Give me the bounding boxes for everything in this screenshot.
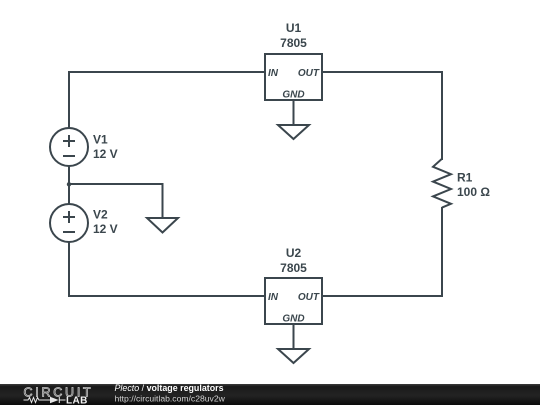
voltage source V2	[50, 204, 88, 242]
label V2 12 V	[93, 208, 118, 237]
voltage source V1	[50, 128, 88, 166]
svg-text:12 V: 12 V	[93, 147, 118, 161]
svg-text:OUT: OUT	[298, 68, 320, 79]
svg-text:GND: GND	[282, 314, 304, 325]
label V1 12 V	[93, 133, 118, 162]
svg-text:IN: IN	[268, 292, 279, 303]
logo diode	[50, 397, 59, 403]
wire V1 top to U1 IN	[69, 72, 265, 128]
logo resistor-diode line	[24, 397, 66, 403]
footer bar	[0, 384, 540, 405]
svg-text:100 Ω: 100 Ω	[457, 185, 490, 199]
ground U1	[278, 125, 309, 139]
svg-text:IN: IN	[268, 68, 279, 79]
svg-text:7805: 7805	[280, 36, 307, 50]
svg-text:Plecto / voltage regulators: Plecto / voltage regulators	[115, 383, 224, 393]
node junction A	[67, 182, 71, 186]
wire V1 bottom to V2 top	[68, 166, 70, 204]
svg-text:7805: 7805	[280, 261, 307, 275]
wire junction to mid ground	[69, 184, 163, 218]
svg-text:GND: GND	[282, 90, 304, 101]
op-amp box U2	[265, 246, 322, 325]
svg-text:R1: R1	[457, 171, 473, 185]
svg-text:http://circuitlab.com/c28uv2w: http://circuitlab.com/c28uv2w	[115, 394, 226, 404]
ground U2	[278, 349, 309, 363]
wire R1 bottom to U2 OUT	[322, 207, 442, 296]
svg-text:U2: U2	[286, 246, 302, 260]
wire U1 OUT to R1 top	[322, 72, 442, 160]
ground (mid)	[147, 218, 178, 233]
resistor R1	[433, 159, 490, 208]
svg-text:12 V: 12 V	[93, 222, 118, 236]
wire U2 GND pin	[293, 324, 295, 349]
svg-text:OUT: OUT	[298, 292, 320, 303]
svg-text:U1: U1	[286, 21, 302, 35]
svg-text:LAB: LAB	[66, 395, 88, 405]
wire U1 GND pin	[293, 100, 295, 125]
wire U2 IN to V2 bottom	[69, 242, 265, 296]
op-amp box U1	[265, 21, 322, 101]
svg-text:V2: V2	[93, 208, 108, 222]
svg-text:V1: V1	[93, 133, 108, 147]
